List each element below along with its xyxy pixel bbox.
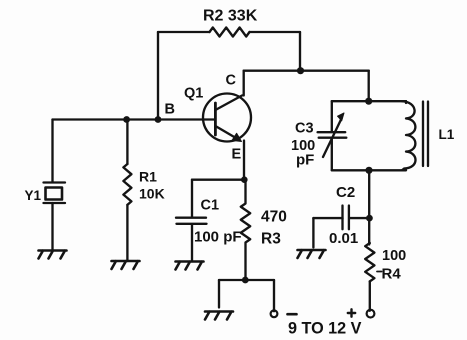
svg-text:Q1: Q1 (184, 86, 203, 102)
svg-text:R1: R1 (139, 169, 157, 185)
svg-text:C1: C1 (201, 198, 220, 214)
svg-text:470: 470 (261, 209, 287, 226)
svg-text:B: B (165, 102, 175, 118)
svg-text:C2: C2 (336, 184, 355, 201)
svg-text:E: E (232, 147, 242, 163)
svg-text:100 pF: 100 pF (194, 229, 242, 246)
svg-text:C3: C3 (295, 121, 314, 137)
svg-text:10K: 10K (139, 186, 165, 202)
svg-text:100: 100 (382, 248, 406, 264)
svg-text:R3: R3 (261, 231, 281, 248)
svg-text:0.01: 0.01 (329, 230, 358, 247)
svg-text:pF: pF (296, 152, 314, 169)
svg-text:C: C (226, 73, 237, 89)
svg-text:R2 33K: R2 33K (203, 8, 258, 25)
svg-text:L1: L1 (439, 127, 455, 142)
svg-text:9 TO 12 V: 9 TO 12 V (288, 320, 362, 338)
svg-text:R4: R4 (382, 266, 402, 283)
svg-text:Y1: Y1 (25, 188, 42, 203)
